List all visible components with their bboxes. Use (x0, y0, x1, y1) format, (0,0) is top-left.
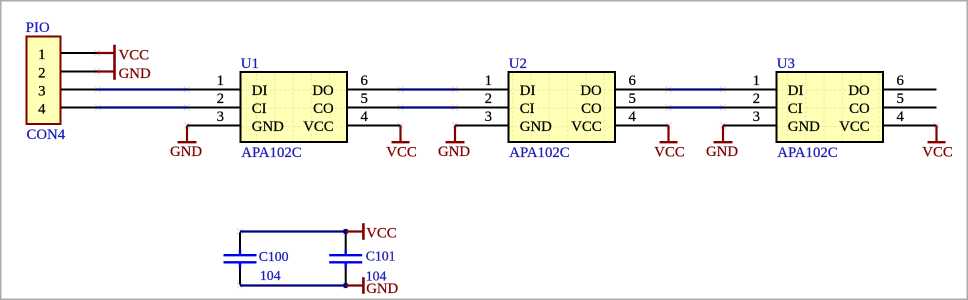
svg-text:CO: CO (849, 101, 870, 117)
svg-text:DI: DI (252, 83, 268, 99)
ground at U3 pin 3 (706, 126, 738, 161)
pin 6 of U3 (883, 89, 937, 91)
ground at U2 pin 3 (438, 126, 470, 161)
svg-text:U1: U1 (241, 56, 259, 72)
pin 3 of CON4 (61, 89, 98, 91)
pin 2 of U1 (187, 107, 241, 109)
svg-text:DO: DO (848, 83, 870, 99)
svg-text:6: 6 (897, 73, 904, 89)
pin 4 of U2 (615, 125, 669, 127)
connector CON4 (26, 20, 66, 143)
ground at rail (346, 277, 399, 297)
svg-text:C101: C101 (366, 249, 396, 264)
svg-text:CO: CO (581, 101, 602, 117)
pin 1 of U1 (187, 89, 241, 91)
pin 5 of U2 (615, 107, 669, 109)
svg-text:2: 2 (38, 65, 45, 81)
IC U3 APA102C (753, 56, 905, 161)
wire U1.CO to U2.CI (401, 106, 456, 108)
ground at U1 pin 3 (170, 126, 202, 161)
svg-text:CI: CI (520, 101, 535, 117)
svg-text:PIO: PIO (26, 20, 50, 36)
svg-text:GND: GND (788, 119, 820, 135)
svg-text:GND: GND (252, 119, 284, 135)
wire U1.DO to U2.DI (401, 88, 456, 90)
svg-text:VCC: VCC (654, 144, 685, 160)
pin 1 of U2 (455, 89, 509, 91)
power VCC at U3 pin 4 (922, 126, 953, 161)
pin 4 of U3 (883, 125, 937, 127)
svg-text:DO: DO (312, 83, 334, 99)
pin 4 of CON4 (61, 107, 98, 109)
pin 6 of U2 (615, 89, 669, 91)
capacitor C100 (224, 233, 289, 285)
wire GND rail (240, 284, 346, 286)
pin 2 of U2 (455, 107, 509, 109)
svg-text:2: 2 (485, 91, 492, 107)
wire VCC rail (240, 230, 346, 232)
svg-text:VCC: VCC (839, 119, 870, 135)
svg-text:5: 5 (897, 91, 904, 107)
svg-text:GND: GND (366, 281, 398, 297)
svg-text:2: 2 (753, 91, 760, 107)
svg-text:VCC: VCC (386, 144, 417, 160)
svg-text:2: 2 (217, 91, 224, 107)
junction at VCC rail (343, 229, 348, 234)
svg-text:DO: DO (580, 83, 602, 99)
capacitor C101 (329, 233, 395, 285)
pin 5 of U1 (347, 107, 401, 109)
svg-text:APA102C: APA102C (777, 145, 837, 161)
power GND (97, 62, 151, 82)
svg-text:CI: CI (788, 101, 803, 117)
svg-text:1: 1 (38, 47, 45, 63)
svg-text:4: 4 (38, 101, 46, 117)
IC U1 APA102C (217, 56, 369, 161)
svg-text:GND: GND (706, 144, 738, 160)
svg-text:GND: GND (438, 144, 470, 160)
pin 4 of U1 (347, 125, 401, 127)
pin 1 of CON4 (61, 52, 98, 54)
pin 3 of U3 (723, 125, 777, 127)
power VCC at rail (346, 223, 397, 241)
svg-text:1: 1 (753, 73, 760, 89)
svg-text:U2: U2 (509, 56, 527, 72)
pin 1 of U3 (723, 89, 777, 91)
power VCC (97, 45, 149, 64)
svg-text:DI: DI (520, 83, 536, 99)
svg-text:1: 1 (217, 73, 224, 89)
svg-text:APA102C: APA102C (509, 145, 569, 161)
svg-text:1: 1 (485, 73, 492, 89)
pin 2 of CON4 (61, 71, 98, 73)
pin 3 of U1 (187, 125, 241, 127)
svg-text:CI: CI (252, 101, 267, 117)
pin 6 of U1 (347, 89, 401, 91)
junction at GND rail (343, 283, 348, 288)
svg-text:C100: C100 (259, 249, 289, 264)
svg-text:5: 5 (629, 91, 636, 107)
svg-text:GND: GND (119, 66, 151, 82)
svg-text:VCC: VCC (119, 47, 150, 63)
svg-text:DI: DI (788, 83, 804, 99)
svg-text:U3: U3 (777, 56, 795, 72)
pin 5 of U3 (883, 107, 937, 109)
svg-text:6: 6 (629, 73, 636, 89)
wire CON4.4 to U1.CI (98, 106, 187, 108)
svg-text:CO: CO (313, 101, 334, 117)
svg-text:4: 4 (361, 109, 369, 125)
svg-text:4: 4 (897, 109, 905, 125)
svg-text:3: 3 (753, 109, 760, 125)
svg-text:APA102C: APA102C (241, 145, 301, 161)
svg-text:3: 3 (38, 83, 45, 99)
svg-text:5: 5 (361, 91, 368, 107)
wire U2.CO to U3.CI (669, 106, 724, 108)
svg-text:6: 6 (361, 73, 368, 89)
svg-text:VCC: VCC (571, 119, 602, 135)
pin 3 of U2 (455, 125, 509, 127)
svg-text:CON4: CON4 (27, 127, 66, 143)
svg-text:GND: GND (170, 144, 202, 160)
svg-text:VCC: VCC (366, 226, 397, 242)
svg-text:VCC: VCC (922, 144, 953, 160)
IC U2 APA102C (485, 56, 637, 161)
wire endpoint markers (94, 50, 940, 289)
wire CON4.3 to U1.DI (98, 88, 187, 90)
svg-text:VCC: VCC (303, 119, 334, 135)
power VCC at U2 pin 4 (654, 126, 685, 161)
power VCC at U1 pin 4 (386, 126, 417, 161)
svg-text:3: 3 (217, 109, 224, 125)
svg-text:4: 4 (629, 109, 637, 125)
svg-text:GND: GND (520, 119, 552, 135)
svg-text:104: 104 (260, 268, 281, 283)
svg-text:3: 3 (485, 109, 492, 125)
wire U2.DO to U3.DI (669, 88, 724, 90)
pin 2 of U3 (723, 107, 777, 109)
